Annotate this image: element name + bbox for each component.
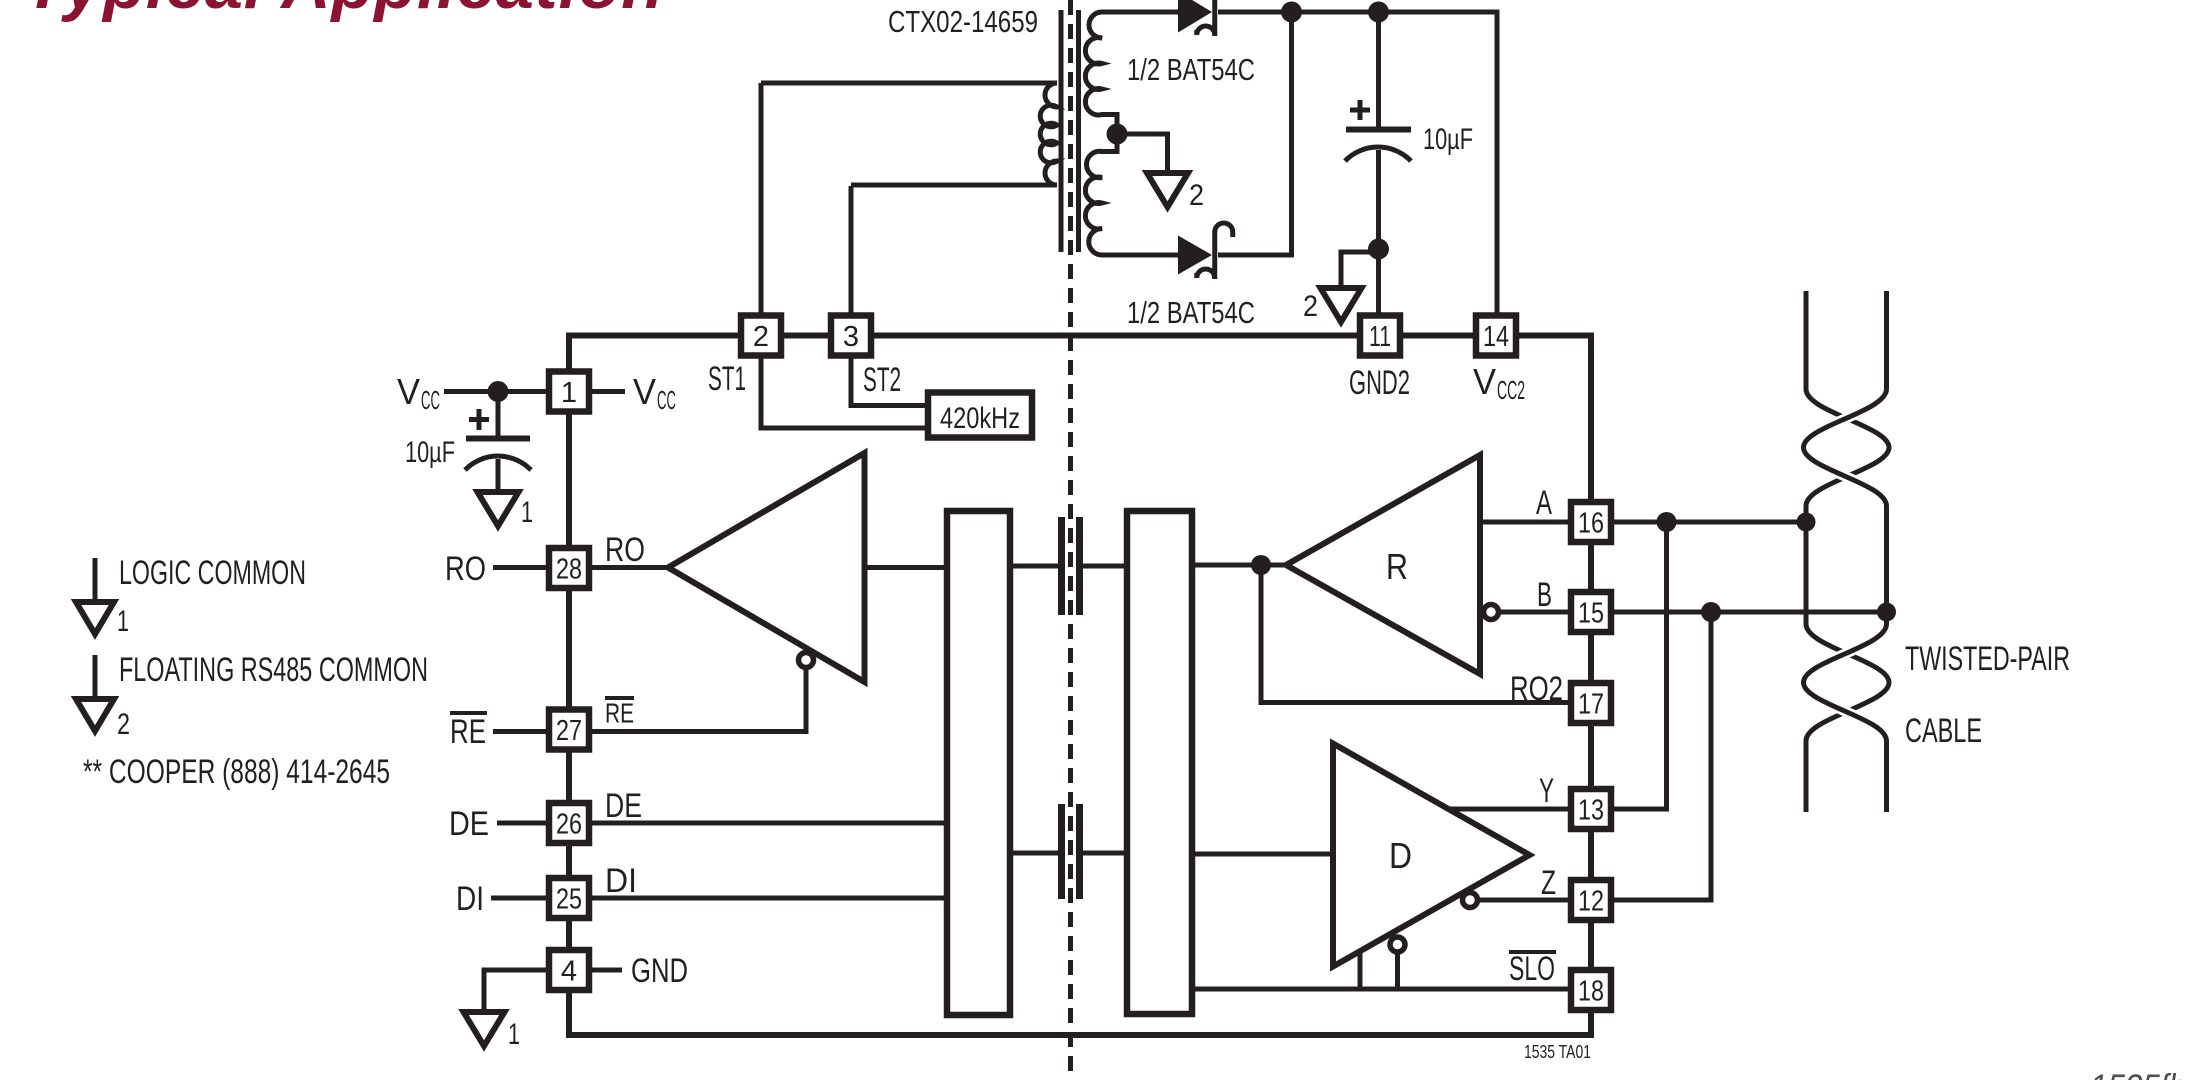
wire pin3 riser to primary bottom xyxy=(849,186,854,314)
svg-text:2: 2 xyxy=(1303,290,1318,323)
svg-text:DI: DI xyxy=(605,862,637,900)
pin 2 xyxy=(741,316,781,356)
label TWISTED-PAIR CABLE xyxy=(1905,640,2070,750)
transformer T1 secondary upper winding xyxy=(1085,12,1178,134)
label 2 (center tap ground) xyxy=(1189,179,1204,212)
svg-text:2: 2 xyxy=(117,708,130,741)
wire Y row (D to pin13) xyxy=(1448,807,1569,812)
bubble RE enable on RO buffer xyxy=(799,653,814,668)
label RO2 xyxy=(1510,670,1563,708)
svg-text:Typical Application: Typical Application xyxy=(24,0,664,23)
svg-text:1: 1 xyxy=(117,605,129,638)
pin 13 xyxy=(1571,789,1611,829)
svg-text:1535 TA01: 1535 TA01 xyxy=(1524,1042,1591,1062)
bubble SLO on D xyxy=(1390,937,1405,952)
node dot B branch xyxy=(1701,602,1721,622)
isolation block right xyxy=(1127,511,1192,1014)
svg-text:GND: GND xyxy=(631,952,688,990)
pin 15 xyxy=(1571,592,1611,632)
wire RO buffer input from isolation block xyxy=(865,565,948,570)
svg-text:12: 12 xyxy=(1578,886,1604,918)
svg-text:1/2 BAT54C: 1/2 BAT54C xyxy=(1127,295,1255,330)
svg-text:420kHz: 420kHz xyxy=(940,402,1020,435)
transformer T1 primary winding xyxy=(761,83,1057,185)
wire RE row xyxy=(591,669,806,732)
wire A row right (pin16 to cable) xyxy=(1613,520,1806,525)
transformer T1 core lines xyxy=(1061,10,1079,252)
wire center tap to ground xyxy=(1117,134,1168,173)
svg-text:RO2: RO2 xyxy=(1510,670,1563,708)
svg-text:18: 18 xyxy=(1578,976,1604,1008)
svg-text:DE: DE xyxy=(449,805,489,843)
svg-text:D: D xyxy=(1389,835,1412,876)
svg-text:25: 25 xyxy=(556,884,582,916)
label RO (far left) xyxy=(445,550,547,588)
svg-text:1: 1 xyxy=(521,496,533,529)
svg-text:2: 2 xyxy=(1189,179,1204,212)
svg-text:CC: CC xyxy=(421,385,440,415)
svg-text:1: 1 xyxy=(561,377,577,409)
label 1 (near C1 ground) xyxy=(521,496,533,529)
label GND (pin4 right) xyxy=(591,952,688,990)
svg-text:V: V xyxy=(633,371,656,412)
label VCC (pin1 right) xyxy=(591,371,676,415)
pin 28 xyxy=(549,548,589,588)
wire pin2 riser to primary top xyxy=(759,83,764,314)
svg-text:3: 3 xyxy=(843,321,859,353)
wire pin4 to ground 1 xyxy=(484,970,547,1012)
svg-text:A: A xyxy=(1536,484,1552,522)
svg-text:V: V xyxy=(397,371,420,412)
ground 2 (center tap) xyxy=(1147,173,1188,207)
wire DE row xyxy=(591,821,947,826)
pin 25 xyxy=(549,878,589,918)
isolation capacitor top pair xyxy=(1010,517,1127,615)
node dot R apex xyxy=(1251,555,1271,575)
wire ST1 riser to oscillator xyxy=(761,358,925,429)
svg-text:DI: DI xyxy=(456,880,484,918)
pin 3 xyxy=(831,316,871,356)
wire cap bottom to ground 2 xyxy=(1341,252,1379,288)
label RE (far left, overline) xyxy=(450,713,547,751)
capacitor C1 plus sign xyxy=(469,409,489,430)
svg-text:Y: Y xyxy=(1539,772,1554,810)
label VCC2 xyxy=(1473,361,1525,405)
label VCC (far left) xyxy=(397,371,440,415)
svg-text:V: V xyxy=(1473,361,1496,402)
svg-text:RO: RO xyxy=(605,531,645,569)
label A xyxy=(1536,484,1552,522)
svg-text:CTX02-14659: CTX02-14659 xyxy=(888,4,1038,39)
svg-text:RE: RE xyxy=(605,698,634,729)
svg-text:10µF: 10µF xyxy=(405,436,455,469)
pin 11 xyxy=(1360,316,1400,356)
svg-text:LOGIC COMMON: LOGIC COMMON xyxy=(119,554,306,592)
pin 12 xyxy=(1571,880,1611,920)
label Z xyxy=(1541,864,1556,902)
wire B row right (pin15 to cable) xyxy=(1613,610,1887,615)
pin 17 xyxy=(1571,683,1611,723)
wire B branch down to Z xyxy=(1613,612,1711,900)
amplifier RO buffer triangle xyxy=(668,453,865,682)
svg-text:TWISTED-PAIR: TWISTED-PAIR xyxy=(1905,640,2070,678)
svg-text:1/2 BAT54C: 1/2 BAT54C xyxy=(1127,52,1255,87)
node dot cable A xyxy=(1797,513,1816,532)
capacitor C1 curved plate xyxy=(465,456,531,470)
amplifier R receiver triangle xyxy=(1286,455,1480,674)
capacitor C2 stem bottom to pin 11 xyxy=(1376,150,1381,314)
svg-text:28: 28 xyxy=(556,554,582,586)
wire RO row (pin28 to apex) xyxy=(591,565,668,570)
oscillator 420kHz box xyxy=(928,393,1032,438)
ground legend LOGIC COMMON xyxy=(76,554,306,638)
label DE (inner) xyxy=(605,787,642,825)
label 1535fb (cropped) xyxy=(2090,1068,2186,1080)
wire VCC feed xyxy=(444,389,547,394)
svg-text:CC2: CC2 xyxy=(1497,375,1525,405)
svg-text:ST1: ST1 xyxy=(708,360,746,398)
wire D input row xyxy=(1192,852,1333,857)
wire RO2 row xyxy=(1261,565,1569,703)
capacitor C2 10uF stem top xyxy=(1376,12,1381,127)
pin 27 xyxy=(549,710,589,750)
label D xyxy=(1389,835,1412,876)
svg-text:1: 1 xyxy=(508,1018,520,1051)
twisted pair right conductor xyxy=(1804,291,1887,812)
node dot rail-left xyxy=(1281,2,1302,23)
label DE (far left) xyxy=(449,805,547,843)
label Y xyxy=(1539,772,1554,810)
isolation capacitor bottom pair xyxy=(1010,804,1127,899)
isolation block left xyxy=(947,511,1010,1015)
ground legend FLOATING RS485 COMMON xyxy=(76,651,428,741)
svg-text:11: 11 xyxy=(1369,321,1391,353)
pin 4 xyxy=(549,950,589,990)
label 2 (near cap ground) xyxy=(1303,290,1318,323)
twisted pair left conductor xyxy=(1806,291,1889,812)
node dot rail-cap xyxy=(1368,2,1389,23)
svg-text:GND2: GND2 xyxy=(1349,364,1410,402)
label 10uF (right) xyxy=(1423,123,1473,156)
label B xyxy=(1537,576,1552,614)
svg-text:1535fb: 1535fb xyxy=(2090,1068,2186,1080)
label 1535 TA01 xyxy=(1524,1042,1591,1062)
ground 1 (near pin4) xyxy=(464,1012,505,1046)
wire D slope tap drop xyxy=(1358,951,1363,989)
label RE (inner, overline) xyxy=(605,698,634,729)
svg-text:DE: DE xyxy=(605,787,642,825)
bubble B input on R xyxy=(1484,605,1499,620)
wire DI row xyxy=(591,896,947,901)
svg-text:16: 16 xyxy=(1578,508,1604,540)
svg-text:B: B xyxy=(1537,576,1552,614)
label SLO (overline) xyxy=(1509,950,1556,988)
label 10uF (left) xyxy=(405,436,455,469)
svg-text:Z: Z xyxy=(1541,864,1556,902)
svg-text:15: 15 xyxy=(1578,598,1604,630)
svg-text:13: 13 xyxy=(1578,795,1604,827)
label DI (far left) xyxy=(456,880,547,918)
svg-text:26: 26 xyxy=(556,809,582,841)
wire SLO bubble drop xyxy=(1395,954,1400,990)
node dot cable B xyxy=(1877,603,1896,622)
label 1/2 BAT54C (bottom) xyxy=(1127,295,1255,330)
diode D1 1/2 BAT54C (top) xyxy=(1178,0,1215,36)
transformer T1 secondary lower winding xyxy=(1085,134,1178,255)
capacitor C2 curved plate xyxy=(1345,147,1411,161)
ground 2 (near cap) xyxy=(1321,288,1362,322)
svg-text:CC: CC xyxy=(657,385,676,415)
svg-text:CABLE: CABLE xyxy=(1905,712,1982,750)
label ST2 xyxy=(863,361,901,399)
svg-text:R: R xyxy=(1386,546,1408,587)
svg-text:14: 14 xyxy=(1483,321,1509,353)
svg-text:RE: RE xyxy=(450,713,486,751)
svg-text:ST2: ST2 xyxy=(863,361,901,399)
svg-text:SLO: SLO xyxy=(1509,950,1555,988)
pin 14 xyxy=(1476,316,1516,356)
capacitor C1 stem bottom xyxy=(496,459,501,492)
svg-text:4: 4 xyxy=(561,956,577,988)
pin 16 xyxy=(1571,502,1611,542)
label RO (inner) xyxy=(605,531,645,569)
svg-text:FLOATING RS485 COMMON: FLOATING RS485 COMMON xyxy=(119,651,428,689)
title (cropped) Typical Application xyxy=(24,0,664,23)
bubble Z output on D xyxy=(1463,893,1478,908)
node center tap dot xyxy=(1107,124,1128,145)
wire iso block to R apex xyxy=(1192,563,1286,568)
capacitor C1 top plate xyxy=(466,436,530,442)
wire top rail VCC2 xyxy=(1218,12,1497,314)
node VCC dot xyxy=(488,381,509,402)
transformer T1 label CTX02-14659 xyxy=(888,4,1038,39)
label 1/2 BAT54C (top) xyxy=(1127,52,1255,87)
diode D2 1/2 BAT54C (bottom) xyxy=(1178,223,1233,279)
ground 1 (near C1) xyxy=(478,492,519,526)
svg-text:2: 2 xyxy=(753,321,769,353)
pin 1 xyxy=(549,372,589,412)
node dot cap bottom xyxy=(1368,239,1389,260)
wire A branch down to Y xyxy=(1613,522,1667,809)
label DI (inner) xyxy=(605,862,637,900)
IC boundary rectangle xyxy=(569,336,1591,1036)
svg-text:17: 17 xyxy=(1578,689,1604,721)
svg-text:10µF: 10µF xyxy=(1423,123,1473,156)
wire SLO row xyxy=(1192,987,1569,992)
label R xyxy=(1386,546,1408,587)
capacitor C2 top plate xyxy=(1346,127,1411,133)
capacitor C1 10uF stem xyxy=(496,392,501,437)
label ST1 xyxy=(708,360,746,398)
label 1 (near pin4 ground) xyxy=(508,1018,520,1051)
wire Z row (bubble to pin12) xyxy=(1479,898,1569,903)
amplifier D driver triangle xyxy=(1333,744,1530,967)
pin 18 xyxy=(1571,970,1611,1010)
isolation barrier dashed line xyxy=(1068,0,1073,1080)
svg-text:** COOPER (888) 414-2645: ** COOPER (888) 414-2645 xyxy=(83,753,390,791)
node dot A branch xyxy=(1657,512,1677,532)
wire B row (bubble to pin15) xyxy=(1500,610,1569,615)
wire A row (R to pin16) xyxy=(1480,520,1569,525)
label GND2 xyxy=(1349,364,1410,402)
svg-text:27: 27 xyxy=(556,715,582,747)
wire ST2 riser to oscillator xyxy=(851,358,925,406)
svg-text:RO: RO xyxy=(445,550,486,588)
pin 26 xyxy=(549,803,589,843)
capacitor C2 plus sign xyxy=(1350,100,1370,120)
note COOPER xyxy=(83,753,390,791)
wire bottom diode to rail xyxy=(1218,12,1292,255)
